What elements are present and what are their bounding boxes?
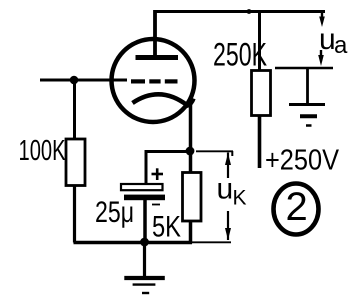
triode V1 anode plate bbox=[136, 55, 179, 60]
wire: 100K top lead bbox=[73, 80, 76, 139]
svg-text:a: a bbox=[334, 32, 348, 59]
label u_K bbox=[217, 173, 247, 210]
svg-text:250K: 250K bbox=[213, 37, 267, 73]
capacitor C top plate (hollow) bbox=[121, 184, 163, 190]
triode V1 cathode bbox=[133, 94, 194, 105]
svg-text:100K: 100K bbox=[19, 135, 66, 167]
wire: cathode node to capacitor bbox=[146, 152, 190, 185]
junction blob on top rail bbox=[247, 9, 252, 14]
junction: bottom node bbox=[140, 238, 149, 247]
svg-text:u: u bbox=[217, 173, 234, 206]
svg-text:5K: 5K bbox=[152, 211, 181, 244]
junction: grid node bbox=[70, 76, 79, 85]
resistor 100K body bbox=[66, 139, 85, 186]
wire: 5K resistor leads bbox=[189, 152, 193, 244]
ground: right ground stem bbox=[306, 68, 309, 104]
voltage arrow u_K bbox=[192, 151, 233, 242]
wire: cathode lead down bbox=[189, 104, 193, 152]
figure number circle bbox=[274, 184, 319, 235]
svg-text:+250V: +250V bbox=[265, 145, 340, 177]
triode V1 envelope bbox=[112, 39, 195, 122]
svg-text:2: 2 bbox=[286, 185, 308, 229]
ground: right ground bars bbox=[289, 105, 325, 126]
capacitor C bottom plate (solid) bbox=[124, 195, 165, 201]
voltage arrow u_a bbox=[318, 12, 325, 67]
triode V1 grid (dashed) bbox=[131, 79, 178, 83]
capacitor C plus sign bbox=[152, 168, 164, 180]
wire: 100K bottom lead bbox=[73, 186, 76, 243]
ground: cathode ground stem bbox=[143, 242, 146, 276]
junction: cathode node bbox=[186, 147, 195, 156]
wire: bottom rail bbox=[74, 241, 193, 244]
capacitor minus mark bbox=[152, 204, 160, 206]
svg-text:25μ: 25μ bbox=[95, 196, 134, 229]
wire: u_a ground node line bbox=[275, 67, 333, 70]
wire: top supply rail from anode to u_a tap bbox=[154, 10, 325, 13]
wire: 250K top lead bbox=[258, 12, 261, 71]
wire: grid lead bbox=[40, 79, 127, 82]
wire: capacitor to bottom rail bbox=[143, 200, 147, 241]
resistor 5K body bbox=[183, 173, 202, 222]
label u_a bbox=[319, 23, 348, 59]
wire: anode lead bbox=[153, 10, 157, 58]
svg-text:K: K bbox=[233, 187, 247, 210]
wire: 250K bottom lead (+250V feed) bbox=[258, 116, 262, 169]
ground: cathode ground bars bbox=[124, 278, 165, 293]
resistor 250K body bbox=[252, 71, 271, 116]
